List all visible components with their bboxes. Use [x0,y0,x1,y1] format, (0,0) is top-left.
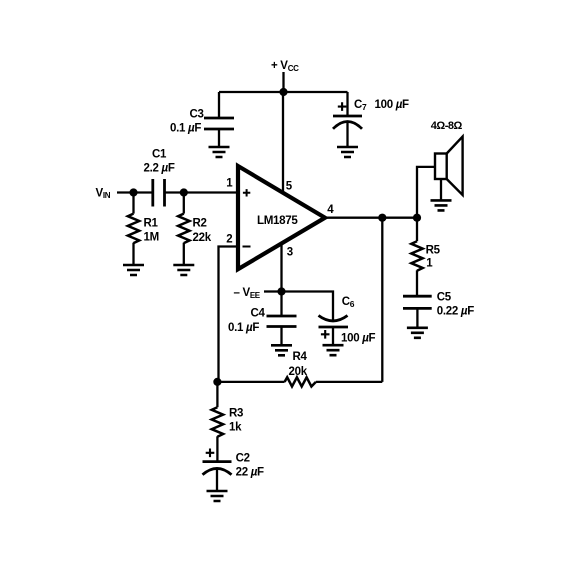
wire C1 to pin 1 [165,191,239,193]
wire VCC stub [282,72,284,92]
wire C5 bottom lead [416,308,418,327]
svg-text:LM1875: LM1875 [257,214,298,227]
svg-text:R3: R3 [229,408,243,420]
svg-text:1M: 1M [144,232,159,244]
svg-text:R1: R1 [144,218,159,230]
junction VEE [277,287,285,295]
svg-text:R4: R4 [293,351,308,363]
svg-text:1: 1 [426,258,433,270]
wire C3 bottom lead [218,129,220,147]
junction R3 feedback [213,378,221,386]
svg-text:5: 5 [286,181,293,193]
op-amp U1 LM1875 [238,166,325,269]
svg-text:0.1 µF: 0.1 µF [228,322,259,334]
svg-text:C1: C1 [152,149,167,161]
R1 value label [144,218,159,244]
speaker LS1 [435,137,463,196]
junction output node [413,214,421,222]
ground C6 [323,345,344,355]
ground C2 [207,491,228,501]
resistor R3 [212,382,223,462]
capacitor C5 [403,296,432,308]
svg-text:R2: R2 [193,218,207,230]
R4 value label [289,351,308,378]
C4 value label [228,308,266,335]
C7 polarity mark [338,102,347,111]
node +VCC label [271,60,299,73]
wire C7 bottom lead [346,122,348,147]
node -VEE label [234,287,279,300]
capacitor C2 [203,462,232,491]
C2 value label [236,453,264,479]
wire output [325,217,417,219]
svg-text:1k: 1k [229,422,242,434]
C6 polarity mark [321,330,330,339]
svg-text:2.2 µF: 2.2 µF [144,163,175,175]
wire C3 top lead [218,92,220,117]
svg-text:4: 4 [327,204,334,216]
svg-text:22 µF: 22 µF [236,467,264,479]
capacitor C1 [153,179,165,207]
ground speaker [431,200,452,210]
junction VCC rail [279,88,287,96]
svg-text:C2: C2 [236,453,250,465]
svg-text:100 µF: 100 µF [341,333,376,345]
svg-text:C4: C4 [251,308,266,320]
C6 value label [341,296,376,345]
junction feedback tap [378,214,386,222]
svg-text:4Ω-8Ω: 4Ω-8Ω [431,120,463,132]
R2 value label [193,218,212,245]
wire output to speaker [417,167,435,218]
C3 value label [170,109,204,135]
C7 value label [354,99,409,112]
wire C7 top lead [346,92,348,116]
wire pin 5 [282,92,284,193]
svg-text:0.22 µF: 0.22 µF [437,306,474,318]
svg-text:2: 2 [226,234,232,246]
svg-text:0.1 µF: 0.1 µF [170,123,201,135]
wire VEE to C6 [282,292,334,320]
wire input to C1 [117,191,153,193]
capacitor C7 [333,116,362,129]
svg-text:C5: C5 [437,291,452,303]
junction input R1 [129,188,137,196]
wire top rail [219,91,348,93]
resistor R2 [178,193,189,266]
junction C1 R2 [180,188,188,196]
C2 polarity mark [206,449,215,458]
R3 value label [229,408,243,434]
svg-text:C3: C3 [190,109,204,121]
ground C5 [407,328,428,338]
ground C3 [209,147,230,157]
resistor R1 [128,193,139,266]
svg-text:R5: R5 [426,245,441,257]
C1 value label [144,149,175,175]
R5 value label [426,245,441,270]
ground R2 [173,265,194,275]
ground C7 [337,147,358,157]
ground C4 [271,345,292,355]
resistor R4 [217,377,382,386]
C5 value label [437,291,474,317]
capacitor C6 [319,316,349,346]
svg-text:22k: 22k [193,232,212,244]
capacitor C4 [267,292,297,346]
wire pin 2 to feedback node [219,247,239,382]
wire pin 3 [280,243,282,292]
wire feedback vertical [381,218,383,382]
resistor R5 [411,218,422,297]
wire speaker ground lead [440,179,442,200]
svg-text:1: 1 [226,178,233,190]
capacitor C3 [204,118,234,129]
ground R1 [123,265,144,275]
svg-text:3: 3 [287,247,293,259]
svg-text:20k: 20k [289,366,308,378]
svg-text:100 µF: 100 µF [375,99,410,111]
